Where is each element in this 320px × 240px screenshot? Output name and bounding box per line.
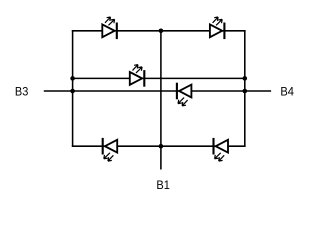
LED bottom-left [103,138,118,161]
wire right rail [244,31,246,146]
junction top center [159,29,164,34]
LED top-right [210,17,225,39]
wire top (left rail to right rail) [73,30,245,32]
LED bottom-right [214,138,229,161]
junction bottom center [159,144,164,149]
svg-text:B4: B4 [280,85,294,99]
svg-text:B1: B1 [156,178,170,192]
wire lower middle B3 to B4 [44,90,271,92]
junction right lower [243,89,248,94]
LED middle-upper [130,65,145,87]
svg-text:B3: B3 [15,84,29,98]
wire center rail [160,31,162,146]
wire left rail [72,31,74,146]
wire bottom [73,145,245,147]
junction left lower [70,89,75,94]
wire B1 stub [160,146,162,169]
junction left upper [70,76,75,81]
LED top-left [102,17,117,39]
wire upper middle [73,77,245,79]
LED middle-lower [177,83,192,106]
junction right upper [243,76,248,81]
